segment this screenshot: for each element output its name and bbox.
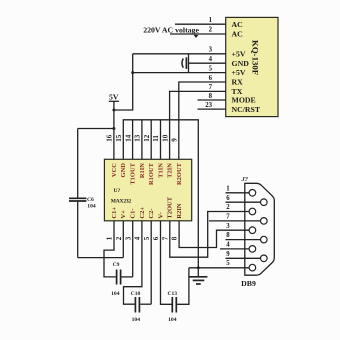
- svg-text:C13: C13: [167, 291, 177, 297]
- svg-text:14: 14: [124, 134, 132, 142]
- svg-text:2: 2: [226, 204, 230, 211]
- svg-text:1: 1: [106, 236, 114, 240]
- svg-text:V+: V+: [120, 210, 127, 219]
- svg-text:R1IN: R1IN: [139, 163, 146, 178]
- svg-text:16: 16: [106, 134, 114, 142]
- svg-text:4: 4: [209, 56, 213, 63]
- svg-text:5V: 5V: [109, 93, 119, 102]
- svg-text:7: 7: [226, 214, 230, 221]
- svg-text:11: 11: [152, 135, 160, 142]
- svg-text:5: 5: [143, 236, 151, 240]
- svg-text:MODE: MODE: [232, 96, 256, 105]
- svg-text:+5V: +5V: [232, 49, 246, 58]
- svg-text:9: 9: [226, 251, 230, 258]
- svg-text:8: 8: [209, 93, 213, 100]
- svg-text:C2-: C2-: [148, 208, 155, 218]
- svg-text:2: 2: [209, 27, 213, 34]
- svg-text:C1+: C1+: [111, 207, 118, 219]
- svg-text:T2IN: T2IN: [167, 163, 174, 178]
- svg-text:104: 104: [132, 317, 141, 323]
- svg-text:C9: C9: [113, 262, 120, 268]
- svg-text:8: 8: [226, 232, 230, 239]
- svg-text:13: 13: [134, 134, 142, 142]
- svg-text:T1OUT: T1OUT: [130, 162, 137, 184]
- svg-text:MAX232: MAX232: [111, 199, 132, 205]
- svg-text:7: 7: [161, 236, 169, 240]
- svg-text:V-: V-: [157, 212, 164, 218]
- svg-text:KQ-130F: KQ-130F: [251, 40, 261, 75]
- svg-text:R2IN: R2IN: [176, 203, 183, 218]
- svg-text:C2+: C2+: [139, 207, 146, 219]
- svg-text:1: 1: [226, 185, 230, 192]
- svg-text:23: 23: [205, 102, 212, 109]
- svg-text:3: 3: [209, 47, 213, 54]
- svg-text:104: 104: [87, 204, 96, 210]
- svg-text:9: 9: [171, 138, 179, 142]
- svg-text:7: 7: [209, 84, 213, 91]
- svg-text:8: 8: [171, 236, 179, 240]
- svg-text:6: 6: [152, 236, 160, 240]
- svg-text:C6: C6: [87, 197, 94, 203]
- svg-text:5: 5: [226, 260, 230, 267]
- svg-text:GND: GND: [120, 163, 127, 178]
- svg-text:R1OUT: R1OUT: [148, 162, 155, 185]
- svg-text:220V AC voltage: 220V AC voltage: [143, 25, 199, 34]
- svg-text:1: 1: [209, 17, 213, 24]
- svg-text:AC: AC: [232, 29, 244, 38]
- svg-text:VCC: VCC: [111, 163, 118, 177]
- svg-text:RX: RX: [232, 78, 244, 87]
- svg-text:T2OUT: T2OUT: [167, 196, 174, 218]
- svg-text:3: 3: [124, 236, 132, 240]
- svg-text:AC: AC: [232, 20, 244, 29]
- svg-text:3: 3: [226, 223, 230, 230]
- svg-text:15: 15: [115, 134, 123, 142]
- svg-text:4: 4: [134, 236, 142, 240]
- svg-text:NC/RST: NC/RST: [232, 105, 261, 114]
- svg-text:6: 6: [226, 195, 230, 202]
- svg-text:2: 2: [115, 236, 123, 240]
- svg-text:+5V: +5V: [232, 68, 246, 77]
- svg-text:104: 104: [168, 317, 177, 323]
- svg-text:R2OUT: R2OUT: [176, 162, 183, 185]
- svg-text:6: 6: [209, 75, 213, 82]
- svg-text:C1-: C1-: [130, 208, 137, 218]
- svg-text:4: 4: [226, 242, 230, 249]
- svg-text:C10: C10: [131, 291, 141, 297]
- svg-text:5: 5: [209, 65, 213, 72]
- svg-text:U?: U?: [114, 188, 121, 194]
- svg-text:GND: GND: [232, 59, 250, 68]
- svg-text:104: 104: [111, 291, 120, 297]
- svg-text:12: 12: [143, 134, 151, 142]
- svg-text:DB9: DB9: [241, 279, 256, 288]
- svg-text:J?: J?: [241, 176, 249, 183]
- svg-text:10: 10: [161, 134, 169, 142]
- svg-text:T1IN: T1IN: [157, 163, 164, 178]
